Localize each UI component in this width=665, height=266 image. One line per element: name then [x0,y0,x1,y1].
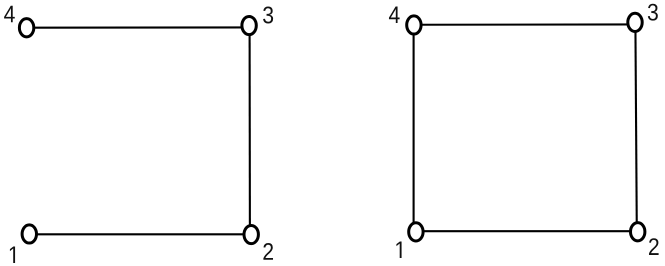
label 1 (right graph) [396,241,401,258]
node 1 (right graph) [409,223,423,241]
node 3 (left graph) [242,16,256,34]
label 4 (right graph) [389,6,400,23]
label 2 (left graph) [263,243,273,260]
node 1 (left graph) [22,225,36,243]
node 2 (right graph) [631,223,645,241]
wire: right graph edge 4-3 (top) [415,23,635,25]
label 3 (right graph) [648,4,658,21]
label 1 (left graph) [10,246,15,263]
node 4 (right graph) [407,16,421,34]
label 3 (left graph) [263,6,273,23]
wire: left graph edge 3-2 (right) [249,27,251,234]
label 4 (left graph) [4,6,15,23]
wire: right graph edge 3-2 (right) [635,23,636,231]
node 3 (right graph) [628,13,642,31]
node 4 (left graph) [19,19,33,37]
wire: right graph edge 4-1 (left) [413,26,415,231]
node 2 (left graph) [244,225,258,243]
wire: left graph edge 4-3 (top) [28,26,249,28]
label 2 (right graph) [649,238,659,255]
wire: left graph edge 1-2 (bottom) [30,233,251,235]
wire: right graph edge 1-2 (bottom) [417,230,637,232]
